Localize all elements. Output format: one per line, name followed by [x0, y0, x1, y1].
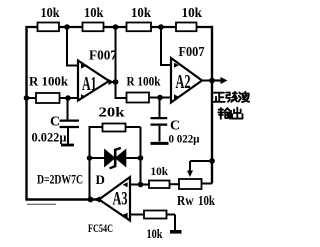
- resistor R4 10k (top row 4): [176, 23, 197, 32]
- node: diode row right junction dot: [138, 155, 144, 161]
- capacitor C2 stem lower: [159, 126, 161, 142]
- svg-text:0.022µ: 0.022µ: [32, 130, 67, 145]
- wire: rail to resistor R 100k row 1: [27, 97, 37, 99]
- svg-text:20k: 20k: [99, 105, 126, 120]
- A2 upper input mark: [174, 63, 179, 68]
- ground bar (bottom right): [170, 230, 182, 234]
- wire: J3 drop to A2 inverting input: [161, 27, 171, 65]
- node J1: junction dot between R1 and R2: [64, 24, 70, 30]
- svg-text:10k: 10k: [151, 164, 169, 178]
- diode D pair (back-to-back zener 2DW7C) left triangle: [105, 150, 115, 167]
- resistor R1 10k (top row 1): [38, 23, 60, 32]
- node: diode row left junction dot: [87, 155, 93, 161]
- node: junction dot on left rail at R 100k row: [24, 95, 30, 101]
- capacitor C1 stem upper: [67, 98, 69, 120]
- resistor 20k: [103, 124, 126, 132]
- wire: A3 upper input to 10k resistor: [130, 184, 149, 186]
- A3 upper input mark: [123, 182, 128, 187]
- svg-text:Rw: Rw: [177, 193, 194, 208]
- node: junction dot on right vertical at wiper branch: [209, 158, 215, 164]
- wire: A1 output to node: [109, 81, 116, 83]
- resistor 10k (A3 upper input): [149, 181, 170, 189]
- wire: 20k loop left side: [90, 127, 103, 200]
- ground bar under C1: [61, 144, 74, 147]
- node: A1 output junction dot: [113, 79, 119, 85]
- wire: J2 drop to A1 output node and down to R 100k row 2: [116, 27, 127, 98]
- svg-text:D: D: [96, 172, 105, 187]
- potentiometer Rw 10k body: [179, 179, 202, 189]
- char bo: [239, 92, 250, 102]
- svg-text:FC54C: FC54C: [88, 221, 113, 235]
- char zheng: [214, 93, 225, 102]
- resistor R2 10k (top row 2): [83, 23, 104, 32]
- svg-text:C: C: [50, 115, 60, 130]
- svg-text:10k: 10k: [84, 6, 104, 21]
- svg-text:F007: F007: [89, 48, 117, 63]
- wire: J1 drop to A1 inverting input: [67, 27, 78, 66]
- svg-text:10k: 10k: [131, 6, 151, 21]
- wire: R 100k row2 to A2 non-inverting input: [149, 97, 171, 99]
- wire: A3 lower input to 10k resistor: [130, 214, 144, 216]
- resistor R 100k (row 1): [36, 93, 60, 103]
- wire: left rail from top-left corner down to A3 output row: [25, 26, 27, 200]
- diode D pair right triangle: [116, 150, 126, 167]
- node: junction dot at A1 lower input / C1: [65, 95, 71, 101]
- capacitor C2 stem upper: [159, 98, 161, 118]
- op-amp A2 triangle: [171, 58, 202, 103]
- A1 upper input mark: [81, 64, 86, 69]
- ground bar under C2: [151, 142, 169, 145]
- resistor 10k (A3 lower input): [144, 211, 167, 219]
- A2 lower input mark: [174, 94, 179, 99]
- A1 lower input mark: [81, 94, 86, 99]
- A3 lower input mark: [123, 213, 128, 218]
- svg-text:0 022µ: 0 022µ: [169, 132, 200, 146]
- wire: diode row: [90, 157, 141, 159]
- node: A2 output junction dot: [209, 78, 215, 84]
- node J3: junction dot between R3 and R4: [158, 24, 164, 30]
- svg-text:A3: A3: [113, 190, 128, 210]
- scan artifact line under output row: [27, 203, 56, 205]
- svg-text:A2: A2: [176, 71, 191, 93]
- node J2: junction dot between R2 and R3: [113, 24, 119, 30]
- A3 output arrowhead (points left): [94, 197, 101, 203]
- wire: 10k to ground: [167, 215, 176, 231]
- resistor R3 10k (top row 3): [127, 23, 152, 32]
- resistor R 100k (row 2): [127, 93, 150, 103]
- label sine wave (zheng xian bo) hand-drawn glyphs: [214, 92, 250, 119]
- wire: right vertical x=212 from top corner to potentiometer: [211, 26, 213, 184]
- capacitor C2 plates: [151, 118, 168, 125]
- op-amp A1 triangle: [78, 61, 109, 101]
- char shu: [218, 108, 231, 119]
- wire: A3 output row (bottom left): [25, 198, 99, 201]
- svg-text:10k: 10k: [182, 6, 203, 21]
- svg-text:D=2DW7C: D=2DW7C: [37, 172, 83, 187]
- capacitor C1 plates: [60, 121, 80, 127]
- A1 output arrowhead: [109, 79, 115, 85]
- char xian: [226, 92, 237, 102]
- svg-text:10k: 10k: [41, 6, 60, 21]
- svg-text:10k: 10k: [147, 226, 164, 241]
- wire: right vertical to pot right end: [202, 183, 213, 185]
- node: A3 output junction dot: [88, 197, 94, 203]
- wiper arrowhead pointing down onto pot: [187, 171, 193, 178]
- svg-text:A1: A1: [82, 73, 97, 95]
- diode center bar with zener hooks: [110, 148, 121, 168]
- output arrow (sine output): [212, 79, 222, 81]
- node: junction dot at A2 lower input / C2: [157, 95, 163, 101]
- node: junction dot at A3 upper input: [138, 182, 144, 188]
- wire: A2 output to node: [202, 80, 212, 82]
- wire: 10k to potentiometer Rw: [170, 183, 180, 185]
- svg-text:R 100k: R 100k: [127, 74, 162, 89]
- wire: wiper branch: [190, 161, 212, 172]
- wire: R 100k row1 to A1 non-inverting input: [60, 97, 79, 99]
- svg-text:R 100k: R 100k: [29, 74, 69, 89]
- capacitor C1 stem lower: [67, 128, 69, 144]
- char chu: [232, 108, 242, 119]
- svg-text:F007: F007: [179, 44, 205, 59]
- svg-text:10k: 10k: [198, 193, 215, 208]
- wire: 20k loop right side: [126, 127, 141, 185]
- op-amp A3 triangle (points left): [99, 177, 130, 221]
- wire: top horizontal bus y=27: [25, 26, 213, 28]
